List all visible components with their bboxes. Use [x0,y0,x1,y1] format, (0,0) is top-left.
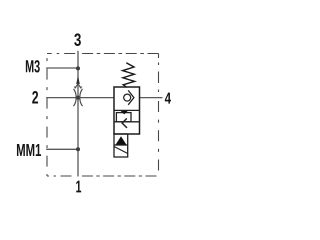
enclosure dashed border left run [46,54,48,177]
wire: main vertical line port 3 to port 1 [77,51,79,177]
label port M3 [26,60,40,72]
flow arrow barb right [80,86,82,88]
spring [123,63,135,88]
drain diagonal line [114,147,127,154]
label port 1 [76,181,81,193]
enclosure dashed border top-left run [47,53,75,55]
relief seat chevron [122,118,127,128]
flow arrow fletching chevron [75,84,81,89]
orifice restrictor right arc [80,89,83,106]
wire: port M3 horizontal line [46,67,78,69]
valve position divider [114,109,140,111]
flow arrow barb left [74,86,76,88]
check valve seat [128,90,134,104]
junction dot at M3 [76,66,80,70]
relief position crossbar line [114,121,140,123]
enclosure dashed border right upper run [158,54,160,95]
label port 4 [165,93,171,104]
pilot actuator box [114,134,128,157]
label port 3 [74,33,81,46]
pilot pressure triangle (filled) [116,136,127,144]
label port 2 [32,91,38,103]
orifice restrictor left arc [74,89,77,106]
check valve ball [124,94,131,101]
enclosure dashed border right lower run [158,101,160,171]
enclosure dashed border top-right run [82,53,159,55]
junction dot at port 2 crossing [76,96,80,100]
pilot actuator divider [114,144,128,146]
relief pilot arrow (filled, pointing down) [121,111,128,115]
relief pilot inner box [116,113,131,122]
wire: port 4 horizontal line [140,97,163,99]
wire: port 2 horizontal line [46,97,114,99]
enclosure dashed border bottom-left run [47,175,72,177]
label port MM1 [17,144,41,156]
enclosure dashed border bottom-right run [82,175,157,177]
junction dot at MM1 [76,147,80,151]
wire: port MM1 horizontal line [46,148,78,150]
valve body two-position envelope [114,87,140,134]
flow arrow head (filled) on vertical line [76,76,80,84]
